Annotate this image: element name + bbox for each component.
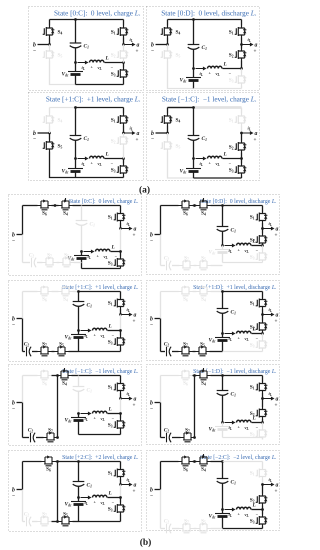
wire chain mid xyxy=(194,265,197,267)
transistor S4 xyxy=(49,108,51,114)
svg-text:+: + xyxy=(133,489,136,495)
wire left vertical xyxy=(160,462,162,490)
wire a to X xyxy=(120,485,122,498)
transistor S3 xyxy=(120,414,122,419)
voltage source Vdc xyxy=(222,510,224,514)
node J xyxy=(77,496,80,499)
inductor L with current arrow xyxy=(225,333,233,335)
wire drop vertical xyxy=(57,462,59,522)
transistor S4 xyxy=(197,198,211,210)
wire chain to battery bottom xyxy=(211,528,223,530)
transistor S6 xyxy=(179,371,193,380)
node chain junction xyxy=(56,436,59,439)
inductor L with current arrow xyxy=(225,422,233,424)
svg-text:State [0:C]: 0 level, charge: State [0:C]: 0 level, charge L. xyxy=(54,10,141,18)
transistor S1 xyxy=(120,292,122,298)
voltage source Vdc xyxy=(193,69,195,78)
node X xyxy=(119,412,122,415)
node J battery top xyxy=(74,61,77,64)
node X xyxy=(119,250,122,253)
transistor S3 xyxy=(123,63,125,68)
transistor S7 xyxy=(172,437,181,439)
wire top rail right xyxy=(211,291,223,293)
wire top rail to S1 xyxy=(223,205,263,207)
transistor S3 xyxy=(262,246,264,251)
node J xyxy=(221,421,224,424)
wire top rail left xyxy=(23,205,38,207)
inductor L with current arrow xyxy=(196,158,204,160)
transistor S1 xyxy=(120,206,122,212)
panel b6 box xyxy=(147,281,280,361)
svg-text:−: − xyxy=(150,322,153,328)
transistor S1 xyxy=(262,462,264,468)
transistor S2 xyxy=(123,133,125,135)
transistor S3 xyxy=(120,252,122,257)
svg-text:+: + xyxy=(275,233,278,239)
node C1 top xyxy=(74,18,77,21)
svg-text:(a): (a) xyxy=(139,185,150,196)
wire left vertical xyxy=(22,462,24,490)
node X xyxy=(122,61,125,64)
wire bottom rail xyxy=(79,351,121,353)
transistor S5 xyxy=(60,258,74,267)
svg-text:L: L xyxy=(108,491,113,497)
svg-text:−: − xyxy=(151,48,154,54)
node C1 top xyxy=(221,460,224,463)
transistor S3 xyxy=(262,510,264,515)
transistor S6 xyxy=(38,201,52,210)
node a with output current arrow xyxy=(261,483,264,486)
wire top rail right xyxy=(73,205,82,207)
voltage source Vdc xyxy=(78,414,80,418)
svg-text:−: − xyxy=(151,137,154,143)
transistor S6 xyxy=(179,201,193,210)
wire bottom rail xyxy=(79,434,121,436)
wire bottom rail xyxy=(194,177,242,179)
voltage source Vdc xyxy=(75,159,77,169)
wire top rail to S1 xyxy=(223,375,263,377)
svg-text:State [0:D]: 0 level, dischar: State [0:D]: 0 level, discharge L. xyxy=(200,199,277,205)
wire top rail left xyxy=(161,375,179,377)
node J xyxy=(221,332,224,335)
wire chain mid xyxy=(194,528,197,530)
wire chain to battery bottom xyxy=(210,351,223,353)
transistor S5 xyxy=(196,347,210,356)
node a with output current arrow xyxy=(122,43,125,46)
voltage source Vdc xyxy=(78,331,80,335)
node X xyxy=(261,508,264,511)
transistor S6 xyxy=(38,371,52,380)
svg-text:+: + xyxy=(254,49,257,55)
node J battery top xyxy=(192,157,195,160)
panel b1 box xyxy=(9,195,142,276)
wire chain to drop junction xyxy=(57,437,59,439)
transistor S2 xyxy=(262,315,264,321)
node a with output current arrow xyxy=(119,313,122,316)
node X xyxy=(240,157,243,160)
panel b5 box xyxy=(147,195,280,275)
transistor S7 xyxy=(32,521,38,523)
wire top rail right xyxy=(211,375,223,377)
panel b8 box xyxy=(147,451,280,531)
wire top mid xyxy=(193,291,197,293)
wire top rail right xyxy=(72,375,79,377)
transistor S5 xyxy=(49,45,51,49)
wire top rail to S1 xyxy=(223,461,263,463)
wire top mid xyxy=(193,205,197,207)
node a with output current arrow xyxy=(261,397,264,400)
wire top rail right xyxy=(211,205,223,207)
wire bottom rail xyxy=(76,84,124,86)
wire bottom rail xyxy=(82,268,121,270)
transistor S1 xyxy=(241,108,243,114)
svg-text:+: + xyxy=(275,319,278,325)
node b xyxy=(166,132,169,135)
svg-text:State [−1:C]: −1 level, charg: State [−1:C]: −1 level, charge L. xyxy=(162,96,257,104)
transistor S6 xyxy=(179,287,193,296)
transistor S1 xyxy=(123,108,125,114)
transistor S4 xyxy=(167,108,169,114)
node J xyxy=(221,244,224,247)
svg-text:State [+1:C]: +1 level, charg: State [+1:C]: +1 level, charge L. xyxy=(62,285,139,291)
wire top mid xyxy=(193,461,197,463)
svg-text:L: L xyxy=(105,56,110,62)
panel b4 box xyxy=(9,451,142,532)
node a with output current arrow xyxy=(119,397,122,400)
wire top mid xyxy=(193,375,197,377)
transistor S4 xyxy=(197,287,211,296)
transistor S4 xyxy=(59,198,73,210)
svg-text:+: + xyxy=(136,49,139,55)
svg-text:(b): (b) xyxy=(140,537,152,548)
node X xyxy=(261,244,264,247)
node a with output current arrow xyxy=(119,227,122,230)
svg-text:+: + xyxy=(275,403,278,409)
capacitor C2 xyxy=(23,521,26,523)
svg-text:State [0:D]: 0 level, dischar: State [0:D]: 0 level, discharge L. xyxy=(161,10,257,18)
transistor S1 xyxy=(262,206,264,212)
capacitor C2 xyxy=(161,265,166,267)
capacitor C1 xyxy=(78,292,80,302)
node b xyxy=(48,43,51,46)
transistor S3 xyxy=(120,331,122,336)
wire top rail to S1 xyxy=(79,375,121,377)
node a with output current arrow xyxy=(122,132,125,135)
wire top rail right xyxy=(73,291,79,293)
transistor S6 xyxy=(42,457,56,466)
capacitor C1 xyxy=(78,462,80,482)
transistor S7 xyxy=(32,351,38,353)
svg-text:State [−2:C]: −2 level, charg: State [−2:C]: −2 level, charge L. xyxy=(200,455,277,461)
node J battery top xyxy=(192,67,195,70)
capacitor C2 xyxy=(23,262,31,264)
capacitor C1 xyxy=(78,376,80,387)
transistor S7 xyxy=(172,265,180,267)
svg-text:L: L xyxy=(111,245,116,251)
capacitor C2 xyxy=(161,351,166,353)
svg-text:L: L xyxy=(105,152,110,158)
capacitor C1 xyxy=(193,20,195,45)
node X xyxy=(240,67,243,70)
svg-text:+: + xyxy=(133,319,136,325)
node C1 top xyxy=(221,290,224,293)
wire top rail left xyxy=(161,291,179,293)
transistor S3 xyxy=(262,334,264,339)
svg-text:−: − xyxy=(12,406,15,412)
node J xyxy=(77,329,80,332)
transistor S2 xyxy=(262,485,264,494)
node C1 top xyxy=(77,290,80,293)
capacitor C1 xyxy=(222,462,224,479)
node chain junction xyxy=(193,436,196,439)
voltage source Vdc xyxy=(222,246,224,250)
transistor S5 xyxy=(58,521,59,523)
svg-text:State [+1:D]: +1 level, disch: State [+1:D]: +1 level, discharge L. xyxy=(193,285,277,291)
transistor S4 xyxy=(197,368,211,380)
wire top rail left xyxy=(23,291,38,293)
wire top rail left xyxy=(161,205,179,207)
svg-text:L: L xyxy=(223,62,228,68)
svg-text:−: − xyxy=(12,322,15,328)
wire chain to battery bottom xyxy=(74,262,82,264)
capacitor C1 xyxy=(75,108,77,136)
wire drop vertical xyxy=(194,376,196,438)
svg-text:L: L xyxy=(108,324,113,330)
voltage source Vdc xyxy=(81,252,83,256)
panel b7 box xyxy=(147,365,280,445)
transistor S1 xyxy=(120,376,122,382)
transistor S5 xyxy=(197,261,211,270)
capacitor C1 xyxy=(81,206,83,221)
transistor S1 xyxy=(241,20,243,26)
node a with output current arrow xyxy=(119,483,122,486)
node C1 top xyxy=(221,374,224,377)
node C1 top xyxy=(77,460,80,463)
node a with output current arrow xyxy=(261,313,264,316)
node C1 top xyxy=(221,204,224,207)
wire bottom rail xyxy=(79,521,121,523)
wire top mid xyxy=(52,291,59,293)
wire chain mid xyxy=(52,351,55,353)
node J battery top xyxy=(74,157,77,160)
inductor L with current arrow xyxy=(225,245,233,247)
voltage source Vdc xyxy=(222,423,224,427)
wire top rail to S1 xyxy=(223,291,263,293)
svg-text:−: − xyxy=(12,493,15,499)
node X xyxy=(119,496,122,499)
voltage source Vdc xyxy=(78,498,80,502)
wire chain to battery bottom xyxy=(211,265,223,267)
node J xyxy=(77,412,80,415)
transistor S5 xyxy=(197,524,211,533)
node C1 top xyxy=(74,106,77,109)
panel a3 box xyxy=(29,93,144,181)
svg-text:−: − xyxy=(150,493,153,499)
capacitor C1 xyxy=(222,292,224,309)
transistor S2 xyxy=(262,229,264,234)
panel a1 box xyxy=(29,7,144,91)
wire chain mid xyxy=(57,262,60,264)
inductor L with current arrow xyxy=(81,413,89,415)
wire bottom rail xyxy=(223,528,263,530)
svg-text:+: + xyxy=(136,137,139,143)
transistor S7 xyxy=(37,262,43,264)
inductor L with current arrow xyxy=(196,68,204,70)
wire top rail left xyxy=(161,461,179,463)
svg-text:+: + xyxy=(133,233,136,239)
svg-text:+: + xyxy=(133,403,136,409)
transistor S4 xyxy=(197,454,211,466)
transistor S2 xyxy=(123,45,125,49)
node drop junction xyxy=(56,374,59,377)
capacitor C2 xyxy=(161,437,166,439)
wire a to X xyxy=(120,229,122,252)
wire a to X xyxy=(120,399,122,414)
transistor S3 xyxy=(241,69,243,74)
svg-text:+: + xyxy=(254,137,257,143)
capacitor C2 xyxy=(23,351,26,353)
wire left vertical xyxy=(160,206,162,235)
panel a4 box xyxy=(147,93,260,181)
transistor S7 xyxy=(172,351,179,353)
wire chain mid xyxy=(193,351,196,353)
inductor L with current arrow xyxy=(225,509,233,511)
inductor L with current arrow xyxy=(78,62,86,64)
wire left vertical xyxy=(22,206,24,235)
transistor S1 xyxy=(262,292,264,298)
node J xyxy=(80,250,83,253)
transistor S4 xyxy=(167,20,169,26)
capacitor C1 xyxy=(222,206,224,227)
node X xyxy=(119,329,122,332)
wire top rail right xyxy=(211,461,223,463)
wire chain to drop junction xyxy=(52,521,58,523)
inductor L with current arrow xyxy=(84,251,92,253)
svg-text:−: − xyxy=(150,238,153,244)
svg-text:−: − xyxy=(33,137,36,143)
wire bottom rail xyxy=(223,437,263,439)
node X xyxy=(261,421,264,424)
wire left vertical xyxy=(160,319,162,352)
node b xyxy=(166,43,169,46)
wire left vertical xyxy=(160,403,162,438)
node a with output current arrow xyxy=(240,43,243,46)
transistor S4 xyxy=(59,287,73,296)
inductor L with current arrow xyxy=(78,158,86,160)
wire bottom rail xyxy=(223,262,263,264)
transistor S2 xyxy=(241,133,243,141)
transistor S7 xyxy=(36,437,44,439)
capacitor C1 xyxy=(222,376,224,391)
voltage source Vdc xyxy=(222,334,224,338)
transistor S7 xyxy=(172,528,180,530)
wire chain to battery bottom xyxy=(73,521,79,523)
wire bottom rail xyxy=(223,351,263,353)
svg-text:L: L xyxy=(223,152,228,158)
node a with output current arrow xyxy=(261,227,264,230)
wire bottom rail xyxy=(194,88,242,90)
node drop junction xyxy=(193,374,196,377)
panel b2 box xyxy=(9,281,142,362)
node drop junction xyxy=(56,460,59,463)
node C1 top xyxy=(192,18,195,21)
wire chain to drop junction xyxy=(194,437,196,439)
wire top rail left xyxy=(23,461,42,463)
svg-text:State [−1:C]: −1 level, charg: State [−1:C]: −1 level, charge L. xyxy=(62,369,139,375)
transistor S3 xyxy=(241,159,243,164)
wire top mid xyxy=(52,375,58,377)
node a with output current arrow xyxy=(240,132,243,135)
wire top rail xyxy=(50,107,76,109)
node J xyxy=(221,508,224,511)
wire top rail right xyxy=(56,461,79,463)
svg-text:State [−1:D]: −1 level, disch: State [−1:D]: −1 level, discharge L. xyxy=(193,369,277,375)
wire top rail to S1 xyxy=(79,461,121,463)
node X xyxy=(261,332,264,335)
wire drop vertical xyxy=(57,376,59,438)
panel a2 box xyxy=(147,7,260,91)
transistor S1 xyxy=(123,20,125,26)
svg-text:State [+2:C]: +2 level, charg: State [+2:C]: +2 level, charge L. xyxy=(62,455,139,461)
transistor S4 xyxy=(49,20,51,26)
transistor S3 xyxy=(262,423,264,428)
wire left vertical xyxy=(22,403,24,438)
transistor S4 xyxy=(58,368,72,380)
voltage source Vdc xyxy=(193,159,195,169)
svg-text:−: − xyxy=(12,238,15,244)
inductor L with current arrow xyxy=(81,497,89,499)
wire top rail to S1 xyxy=(79,291,121,293)
transistor S5 xyxy=(49,133,51,140)
transistor S6 xyxy=(179,457,193,466)
capacitor C1 xyxy=(193,108,195,136)
transistor S5 xyxy=(167,45,169,49)
wire top rail left xyxy=(23,375,38,377)
node X xyxy=(122,157,125,160)
wire top rail xyxy=(168,107,242,109)
node between S6 and S4 xyxy=(193,460,196,463)
node between S6 and S4 xyxy=(54,204,57,207)
wire top rail xyxy=(50,19,124,21)
inductor L with current arrow xyxy=(81,330,89,332)
node between S6 and S4 xyxy=(193,204,196,207)
wire left vertical xyxy=(22,319,24,352)
panel b3 box xyxy=(9,365,142,446)
transistor S3 xyxy=(123,159,125,164)
wire top mid xyxy=(52,205,59,207)
capacitor C2 xyxy=(161,528,166,530)
transistor S5 xyxy=(167,133,169,140)
capacitor C1 xyxy=(75,20,77,44)
transistor S1 xyxy=(120,462,122,468)
svg-text:L: L xyxy=(108,407,113,413)
svg-text:State [+1:C]: +1 level, charg: State [+1:C]: +1 level, charge L. xyxy=(46,96,141,104)
wire chain to battery bottom xyxy=(69,351,79,353)
node chain junction xyxy=(56,520,59,523)
wire bottom rail xyxy=(76,177,124,179)
capacitor C2 xyxy=(23,437,30,439)
transistor S2 xyxy=(241,45,243,49)
transistor S6 xyxy=(38,287,52,296)
wire top rail xyxy=(168,19,242,21)
node b xyxy=(48,132,51,135)
svg-text:−: − xyxy=(150,406,153,412)
voltage source Vdc xyxy=(75,63,77,72)
transistor S1 xyxy=(262,376,264,382)
transistor S3 xyxy=(120,498,122,503)
transistor S2 xyxy=(262,399,264,408)
wire a to X xyxy=(120,315,122,331)
